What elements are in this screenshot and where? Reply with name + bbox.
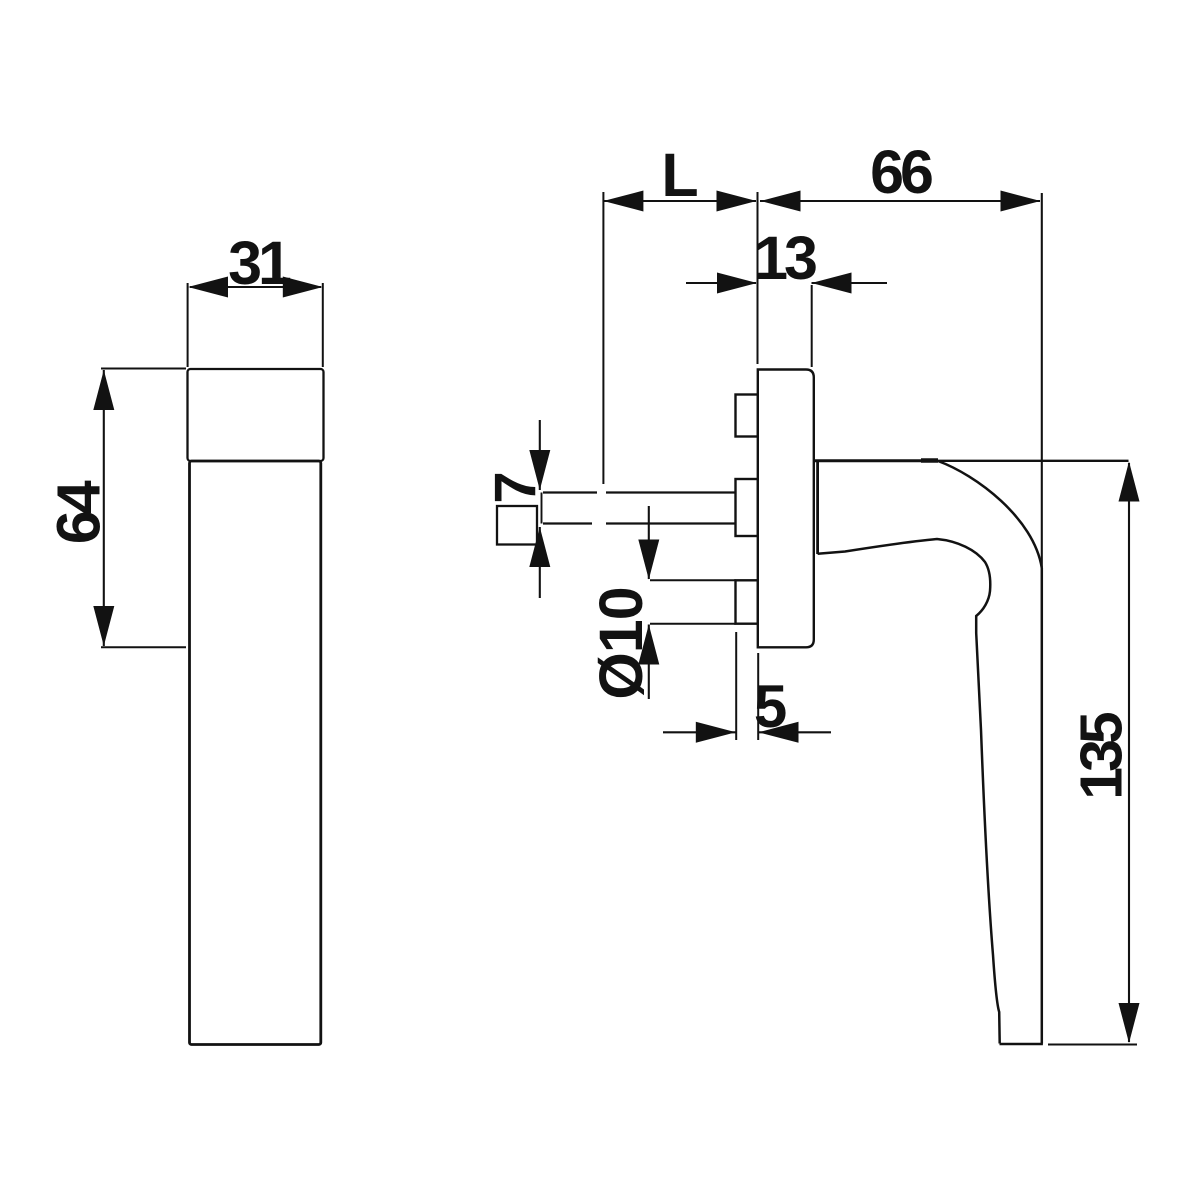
- dimension 13 arrow pointing left: [812, 273, 852, 294]
- extension line boss top: [650, 579, 736, 581]
- svg-text:135: 135: [1069, 712, 1135, 800]
- spindle hub boss: [736, 479, 758, 536]
- dimension L arrow right: [717, 191, 757, 212]
- dimension L label: [661, 141, 698, 209]
- dimension 7 arrow down: [529, 450, 550, 490]
- dimension 5 left tail line: [663, 731, 736, 733]
- dimension 64 top extension line: [101, 368, 186, 370]
- dimension 135 line: [1128, 463, 1130, 1042]
- dimension L line: [604, 200, 756, 202]
- dimension L arrow left: [603, 191, 643, 212]
- extension line plate back face: [757, 192, 759, 364]
- dimension 5 left extension line: [735, 632, 737, 740]
- dimension 5 arrow pointing right: [696, 722, 736, 743]
- svg-text:5: 5: [754, 673, 787, 740]
- dimension diameter 10 arrow down: [638, 540, 659, 580]
- extension line for 13 right: [811, 285, 813, 367]
- dimension 7 arrow up: [529, 527, 550, 567]
- dimension 5 right tail line: [759, 731, 832, 733]
- dimension diameter 10 arrow up: [638, 625, 659, 665]
- handle grip front view: [190, 461, 321, 1045]
- lever top edge heavy part: [815, 459, 938, 462]
- lever root seam: [816, 461, 819, 554]
- dimension 13 left tail line: [686, 282, 756, 284]
- dimension 31 label: [228, 229, 291, 297]
- spindle top edge: [543, 491, 597, 493]
- extension line right of 31: [322, 283, 324, 367]
- dimension 13 label: [754, 224, 816, 292]
- dimension 7 leader top: [539, 420, 541, 490]
- svg-text:64: 64: [45, 480, 113, 544]
- dimension 66 arrow right: [1001, 191, 1041, 212]
- extension line spindle end for L: [602, 192, 604, 484]
- dimension diameter 10 lower leader: [648, 625, 650, 700]
- dimension 31 arrow right: [283, 277, 323, 298]
- dimension 135 arrow down: [1119, 1003, 1140, 1043]
- lever inner profile: [818, 539, 1000, 1044]
- dimension 64 bottom extension line: [101, 646, 186, 648]
- dimension 135 label: [1069, 712, 1135, 800]
- extension line left of 31: [187, 283, 189, 367]
- spindle left end cap: [541, 493, 543, 524]
- svg-text:L: L: [661, 141, 698, 209]
- lever outer straight edge: [1041, 568, 1044, 1044]
- lever bottom tip edge: [1000, 1043, 1043, 1045]
- dimension 64 line: [103, 370, 105, 646]
- top screw boss: [736, 395, 758, 437]
- dimension 64 arrow up: [93, 370, 114, 410]
- dimension 64 label: [45, 480, 113, 544]
- dimension 5 arrow pointing left: [759, 722, 799, 743]
- dimension 13 right tail line: [812, 282, 888, 284]
- lever outer curve: [938, 461, 1042, 568]
- lower screw boss: [736, 580, 758, 623]
- dimension 5 label: [754, 673, 787, 740]
- dimension 135 arrow up: [1119, 462, 1140, 502]
- dimension 66 line: [760, 200, 1040, 202]
- dimension 66 label: [870, 138, 932, 206]
- dimension 66 arrow left: [761, 191, 801, 212]
- dimension 7 label: [483, 471, 548, 503]
- svg-text:13: 13: [754, 224, 816, 292]
- dimension 135 bottom extension line: [1048, 1044, 1137, 1046]
- extension line lever outer for 66 and 135 top: [1041, 193, 1043, 568]
- spindle bottom edge: [543, 522, 592, 524]
- dimension 64 arrow down: [93, 606, 114, 646]
- dimension 31 arrow left: [188, 277, 228, 298]
- extension line boss bottom: [650, 623, 736, 625]
- rosette plate side view: [758, 370, 814, 648]
- dimension 5 right extension line: [757, 653, 759, 740]
- dimension diameter 10 label: [587, 587, 655, 699]
- dimension 7 leader bottom: [539, 527, 541, 598]
- dimension diameter 10 upper leader: [648, 506, 650, 579]
- svg-text:66: 66: [870, 138, 932, 206]
- lever top edge and 135 top extension: [815, 460, 1129, 462]
- handle neck front view: [188, 369, 324, 461]
- dimension 31 line: [190, 286, 321, 288]
- lever top edge blip: [921, 458, 938, 463]
- svg-text:7: 7: [483, 471, 548, 503]
- square section symbol 7mm: [497, 506, 537, 545]
- svg-text:Ø10: Ø10: [587, 587, 655, 699]
- dimension 13 arrow pointing right: [717, 273, 757, 294]
